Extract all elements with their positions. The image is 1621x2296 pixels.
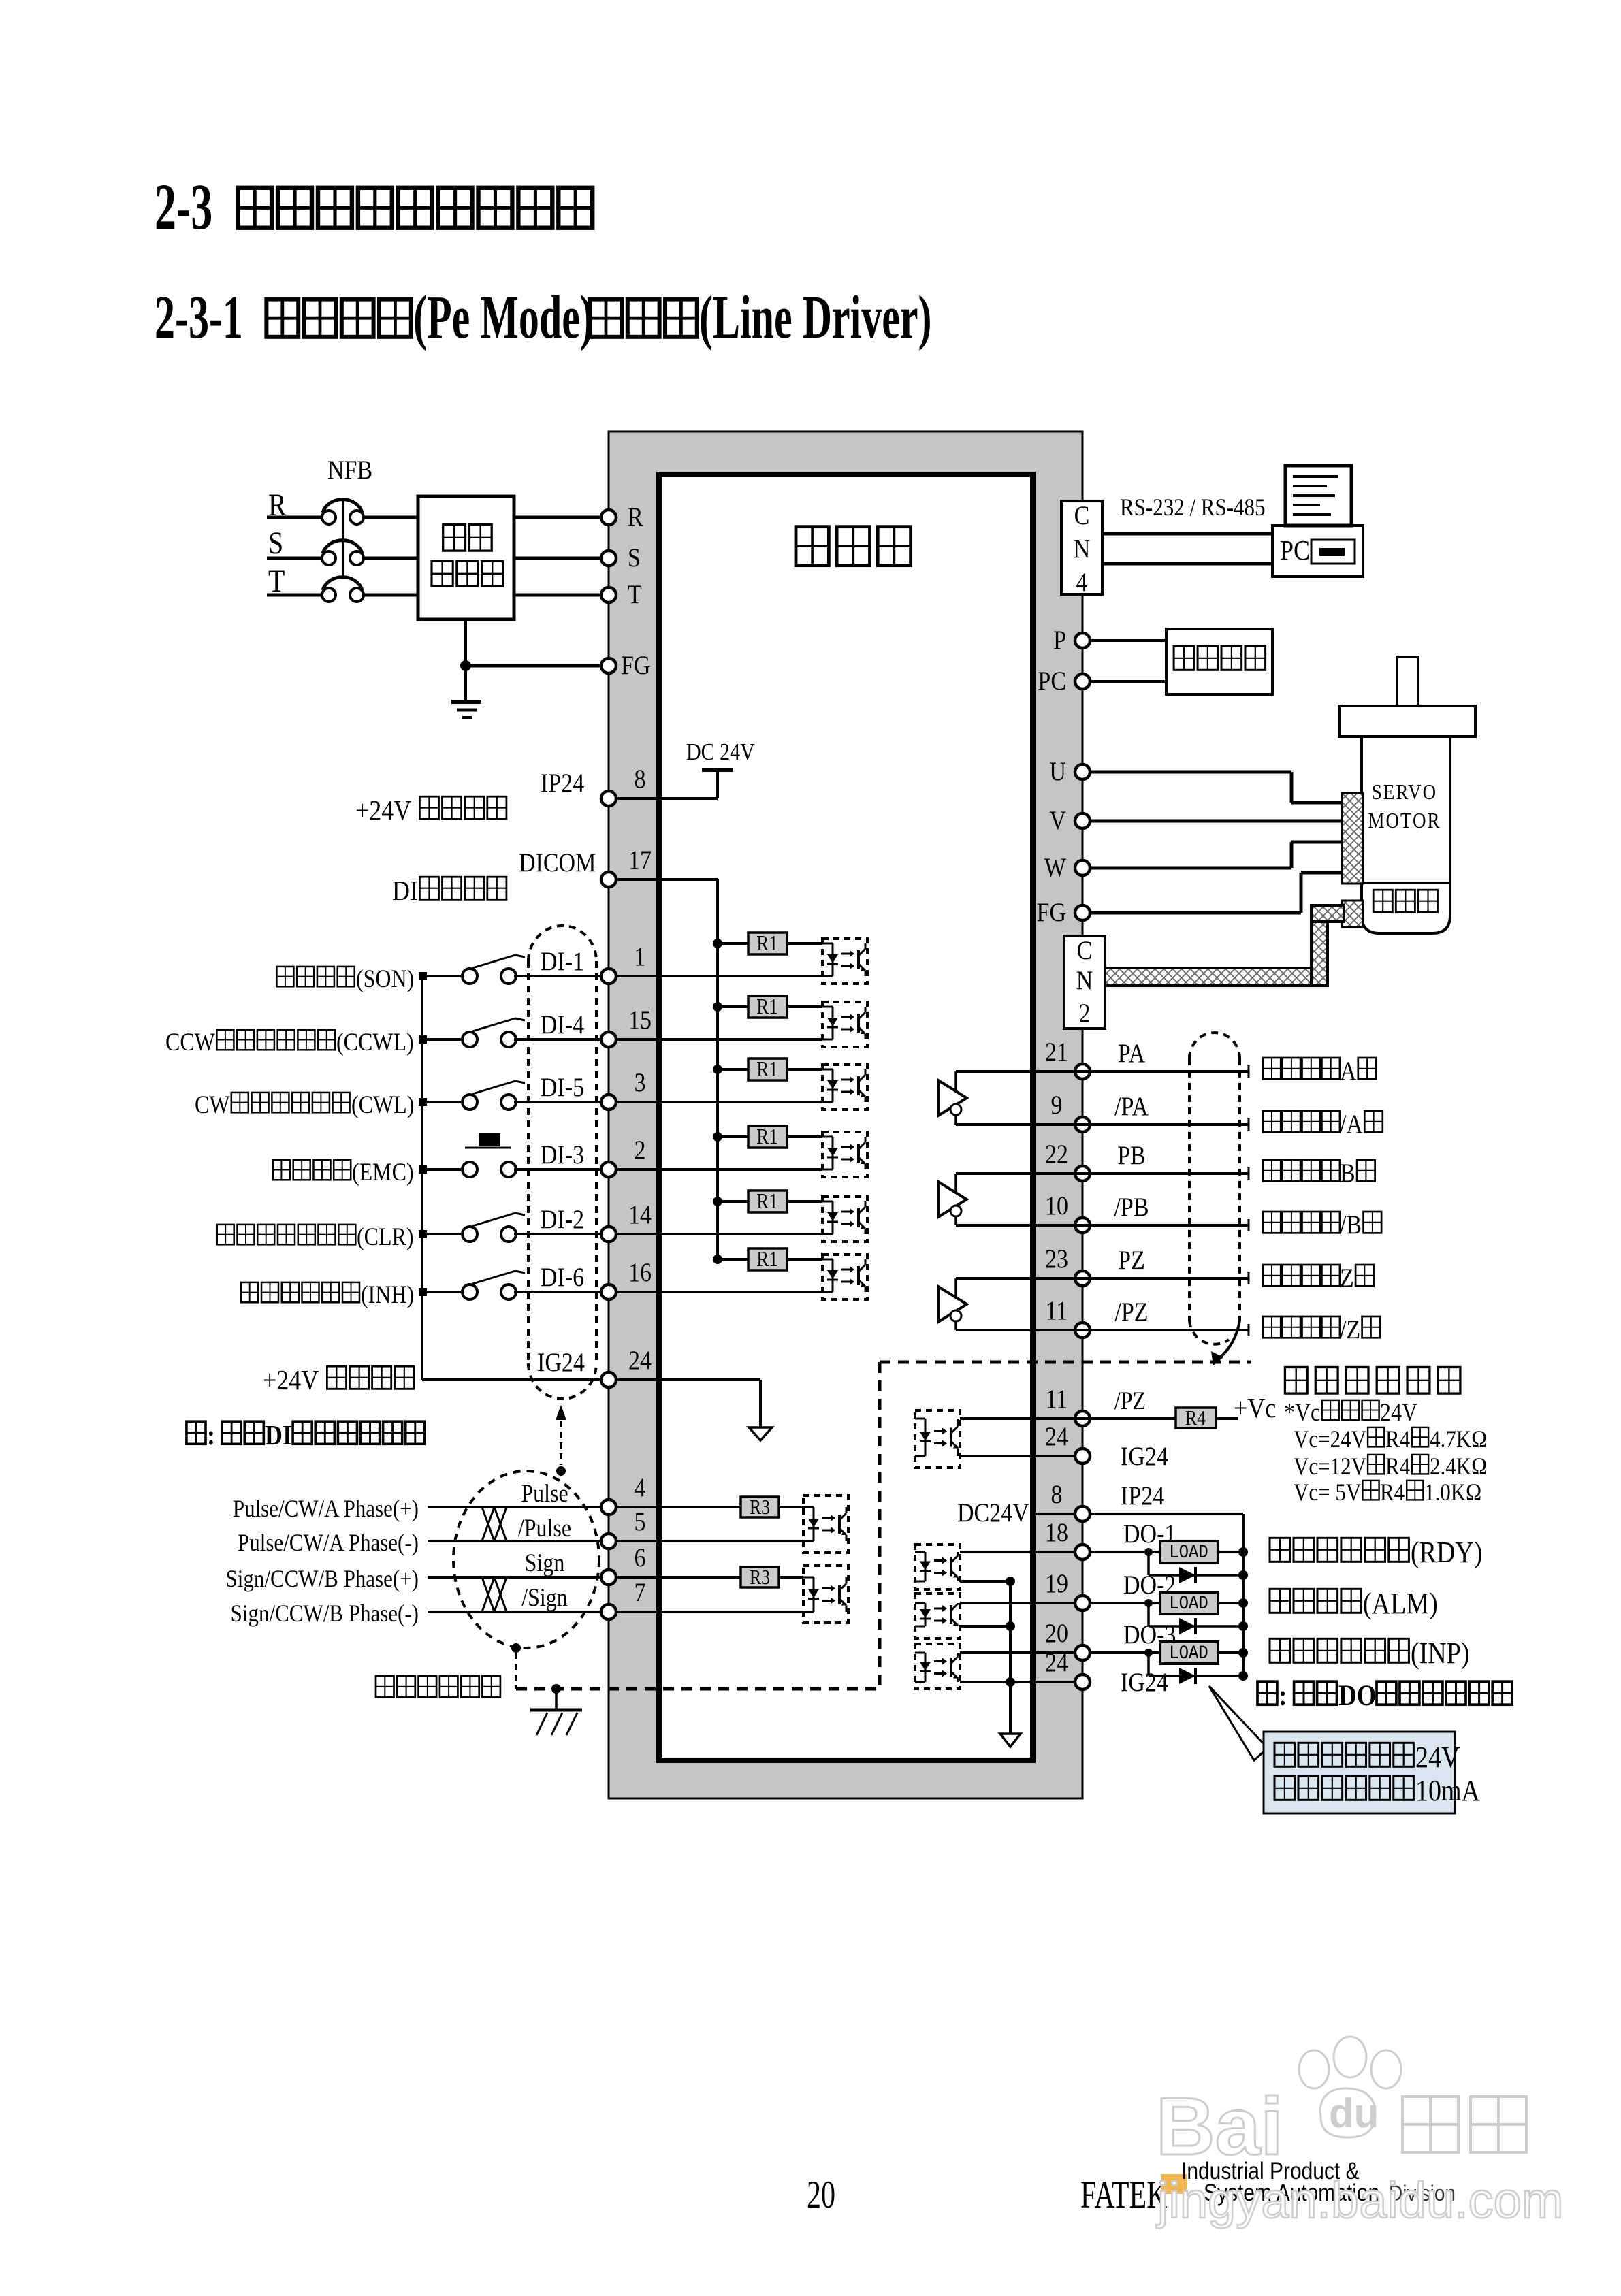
svg-text:IG24: IG24 xyxy=(537,1347,585,1377)
svg-text:MOTOR: MOTOR xyxy=(1368,809,1441,832)
svg-text:Bai: Bai xyxy=(1156,2081,1283,2172)
svg-text:10mA: 10mA xyxy=(1415,1773,1480,1807)
svg-text:DO: DO xyxy=(1338,1679,1376,1711)
svg-text:Z: Z xyxy=(1340,1263,1354,1293)
svg-text:DC 24V: DC 24V xyxy=(686,739,755,766)
svg-text:6: 6 xyxy=(635,1542,646,1572)
svg-text:T: T xyxy=(628,579,642,609)
svg-text:DI: DI xyxy=(392,875,418,907)
svg-text:(INP): (INP) xyxy=(1411,1636,1470,1670)
svg-text:FG: FG xyxy=(621,650,650,680)
svg-text:(INH): (INH) xyxy=(361,1281,414,1309)
svg-text:PA: PA xyxy=(1118,1038,1146,1068)
svg-text:15: 15 xyxy=(628,1005,652,1035)
svg-text:/Sign: /Sign xyxy=(521,1584,568,1612)
svg-text:RS-232 / RS-485: RS-232 / RS-485 xyxy=(1120,494,1266,521)
svg-text:4: 4 xyxy=(635,1472,646,1502)
svg-text:C: C xyxy=(1074,500,1090,530)
svg-text:DI-5: DI-5 xyxy=(541,1072,584,1102)
svg-text:R4: R4 xyxy=(1385,1426,1410,1453)
svg-text:du: du xyxy=(1329,2090,1379,2136)
svg-text:PC: PC xyxy=(1280,535,1310,566)
svg-text:9: 9 xyxy=(1051,1090,1063,1120)
svg-text:PB: PB xyxy=(1117,1140,1146,1170)
svg-text:11: 11 xyxy=(1046,1384,1068,1414)
svg-text:17: 17 xyxy=(628,845,652,875)
svg-text:(Line Driver): (Line Driver) xyxy=(699,283,931,351)
svg-text:NFB: NFB xyxy=(327,455,372,485)
svg-text:Vc= 5V: Vc= 5V xyxy=(1294,1479,1361,1506)
svg-text:c: c xyxy=(1311,1399,1320,1427)
svg-text:R1: R1 xyxy=(756,995,777,1018)
svg-text:DI-1: DI-1 xyxy=(541,946,584,976)
svg-text:8: 8 xyxy=(635,764,646,794)
svg-text:(CCWL): (CCWL) xyxy=(336,1029,414,1056)
svg-text:8: 8 xyxy=(1051,1479,1063,1509)
svg-text:(CLR): (CLR) xyxy=(357,1223,414,1251)
svg-text:DI-2: DI-2 xyxy=(541,1204,584,1234)
svg-text:24V: 24V xyxy=(1380,1399,1417,1427)
svg-text:(RDY): (RDY) xyxy=(1411,1535,1483,1569)
svg-text:23: 23 xyxy=(1045,1244,1068,1274)
svg-text:IP24: IP24 xyxy=(1121,1481,1164,1510)
svg-text:DI-4: DI-4 xyxy=(541,1009,584,1039)
svg-text:19: 19 xyxy=(1045,1568,1068,1598)
svg-text:*V: *V xyxy=(1284,1399,1311,1427)
svg-text:W: W xyxy=(1044,852,1066,882)
svg-text:2-3: 2-3 xyxy=(155,170,212,243)
svg-text:/PB: /PB xyxy=(1114,1192,1149,1222)
svg-text:2: 2 xyxy=(635,1135,646,1165)
svg-text:18: 18 xyxy=(1045,1517,1068,1547)
svg-text:jingyan.baidu.com: jingyan.baidu.com xyxy=(1156,2172,1563,2229)
svg-text:DICOM: DICOM xyxy=(519,847,596,877)
svg-text:B: B xyxy=(1340,1158,1355,1188)
svg-text:+24V: +24V xyxy=(355,795,411,826)
svg-text:(EMC): (EMC) xyxy=(352,1159,414,1186)
svg-text:IG24: IG24 xyxy=(1121,1667,1168,1697)
svg-text:LOAD: LOAD xyxy=(1169,1642,1208,1664)
svg-text:Vc=12V: Vc=12V xyxy=(1294,1453,1366,1481)
svg-text:DC24V: DC24V xyxy=(957,1498,1029,1527)
svg-text:DI: DI xyxy=(265,1420,292,1451)
svg-text:R1: R1 xyxy=(756,1248,777,1271)
svg-text:/B: /B xyxy=(1340,1210,1362,1240)
svg-text:10: 10 xyxy=(1045,1191,1068,1220)
svg-text::: : xyxy=(1279,1679,1287,1711)
svg-text:7: 7 xyxy=(635,1577,646,1607)
svg-text:1.0KΩ: 1.0KΩ xyxy=(1424,1479,1481,1506)
svg-text:20: 20 xyxy=(807,2173,835,2216)
svg-text:(ALM): (ALM) xyxy=(1363,1586,1438,1620)
svg-text:24V: 24V xyxy=(1415,1740,1460,1773)
svg-text:16: 16 xyxy=(628,1257,652,1287)
svg-text:FG: FG xyxy=(1037,897,1066,927)
svg-text:2.4KΩ: 2.4KΩ xyxy=(1430,1453,1487,1481)
svg-text:R: R xyxy=(628,502,643,532)
svg-text:5: 5 xyxy=(635,1506,646,1536)
svg-text:U: U xyxy=(1049,756,1066,786)
svg-text:V: V xyxy=(1049,805,1066,835)
svg-text:/PA: /PA xyxy=(1114,1091,1149,1121)
svg-text:24: 24 xyxy=(628,1345,652,1375)
svg-text::: : xyxy=(207,1420,215,1451)
svg-text:PZ: PZ xyxy=(1118,1245,1145,1275)
svg-text:11: 11 xyxy=(1046,1295,1068,1325)
svg-text:Pulse: Pulse xyxy=(521,1480,568,1508)
svg-text:Pulse/CW/A Phase(-): Pulse/CW/A Phase(-) xyxy=(238,1530,419,1557)
svg-text:+24V: +24V xyxy=(263,1365,319,1396)
svg-text:P: P xyxy=(1053,625,1066,655)
svg-text:+Vc: +Vc xyxy=(1234,1393,1276,1424)
svg-text:R4: R4 xyxy=(1185,1407,1206,1429)
svg-text:4: 4 xyxy=(1076,567,1088,597)
svg-text:/Pulse: /Pulse xyxy=(518,1515,571,1542)
svg-text:R1: R1 xyxy=(756,1190,777,1213)
svg-text:Sign/CCW/B Phase(+): Sign/CCW/B Phase(+) xyxy=(226,1566,419,1593)
svg-text:S: S xyxy=(268,526,283,560)
svg-text:N: N xyxy=(1076,965,1093,995)
svg-text:R1: R1 xyxy=(756,1125,777,1148)
svg-text:22: 22 xyxy=(1045,1139,1068,1169)
svg-text:R1: R1 xyxy=(756,1058,777,1081)
svg-text:LOAD: LOAD xyxy=(1169,1592,1208,1614)
svg-text:/Z: /Z xyxy=(1340,1314,1360,1344)
svg-text:DI-6: DI-6 xyxy=(541,1262,584,1292)
svg-text:Vc=24V: Vc=24V xyxy=(1294,1426,1366,1453)
svg-text:(CWL): (CWL) xyxy=(351,1091,414,1119)
svg-text:S: S xyxy=(628,543,641,572)
svg-text:/PZ: /PZ xyxy=(1114,1387,1146,1415)
svg-text:Sign/CCW/B Phase(-): Sign/CCW/B Phase(-) xyxy=(231,1600,419,1628)
svg-text:N: N xyxy=(1074,534,1091,564)
svg-text:LOAD: LOAD xyxy=(1169,1541,1208,1563)
svg-text:(SON): (SON) xyxy=(356,965,414,993)
svg-text:2: 2 xyxy=(1079,998,1091,1028)
svg-text:21: 21 xyxy=(1045,1037,1068,1067)
svg-text:Sign: Sign xyxy=(525,1549,565,1577)
svg-text:Pulse/CW/A Phase(+): Pulse/CW/A Phase(+) xyxy=(233,1495,419,1523)
svg-text:IP24: IP24 xyxy=(541,768,584,798)
svg-text:2-3-1: 2-3-1 xyxy=(155,283,243,351)
svg-text:A: A xyxy=(1340,1056,1357,1086)
svg-text:4.7KΩ: 4.7KΩ xyxy=(1430,1426,1487,1453)
svg-text:SERVO: SERVO xyxy=(1372,781,1437,804)
svg-text:IG24: IG24 xyxy=(1121,1441,1168,1471)
svg-text:DI-3: DI-3 xyxy=(541,1139,584,1169)
svg-text:24: 24 xyxy=(1045,1421,1068,1451)
svg-text:R1: R1 xyxy=(756,932,777,955)
svg-text:R3: R3 xyxy=(750,1566,770,1589)
svg-text:3: 3 xyxy=(635,1067,646,1097)
svg-text:20: 20 xyxy=(1045,1618,1068,1648)
svg-text:R3: R3 xyxy=(750,1496,770,1519)
svg-text:R4: R4 xyxy=(1380,1479,1405,1506)
svg-text:(Pe Mode): (Pe Mode) xyxy=(413,283,594,351)
svg-text:/PZ: /PZ xyxy=(1114,1297,1148,1327)
svg-text:R4: R4 xyxy=(1385,1453,1410,1481)
svg-text:PC: PC xyxy=(1038,666,1066,696)
svg-text:C: C xyxy=(1077,935,1093,965)
svg-text:1: 1 xyxy=(635,941,646,971)
svg-text:CW: CW xyxy=(195,1091,230,1119)
svg-text:FATEK: FATEK xyxy=(1080,2173,1168,2216)
svg-text:14: 14 xyxy=(628,1199,652,1229)
svg-text:CCW: CCW xyxy=(165,1029,215,1056)
svg-text:/A: /A xyxy=(1340,1109,1363,1139)
